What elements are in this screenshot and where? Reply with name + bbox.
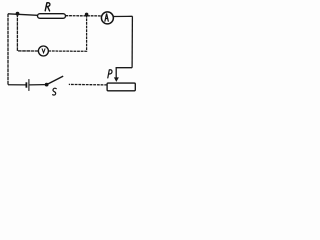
wire voltmeter branch right [48,14,86,51]
switch pivot dot [45,83,49,87]
switch S lever [47,76,64,85]
wire voltmeter branch left [17,14,38,51]
wire left vertical [7,14,9,85]
battery BT1 long plate [28,79,30,91]
label S [53,88,57,95]
wire bottom right of switch [69,83,107,86]
node junction dot right [85,13,89,17]
wire ammeter to right corner [113,15,132,17]
wire top-left horizontal [8,14,38,16]
wire resistor to ammeter [66,15,103,17]
rheostat P box [107,83,135,91]
label A [105,14,108,22]
resistor R1 box [38,14,66,19]
label P [108,70,112,78]
wire right vertical [131,16,133,67]
node junction dot left [16,12,20,16]
label V [42,49,45,53]
wire bottom left [8,84,26,86]
wire jog to rheostat arrow [116,68,132,79]
label R [45,3,50,11]
ammeter U1 circle [101,12,113,24]
battery BT1 short plate [25,82,27,87]
rheostat wiper arrowhead [114,77,119,82]
wire battery to switch [30,84,45,86]
voltmeter U2 circle [38,46,48,56]
